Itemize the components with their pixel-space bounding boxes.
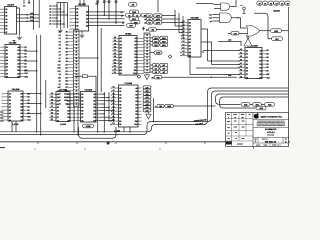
node DA3 flag	[143, 96, 151, 99]
svg-text:9: 9	[74, 119, 75, 122]
svg-text:U8 LS138: U8 LS138	[85, 89, 93, 92]
svg-text:apple computer inc.: apple computer inc.	[261, 115, 283, 118]
node diamond below U6	[137, 75, 141, 79]
decoder U3 LS139	[2, 88, 32, 122]
wire AD links	[250, 103, 265, 105]
wire J2 tap row D1	[150, 40, 153, 42]
svg-text:4: 4	[253, 147, 254, 150]
wire J2 tap row D6	[150, 71, 153, 73]
wire vertical net V3	[97, 0, 99, 132]
node flag row D5	[160, 67, 168, 71]
svg-text:1: 1	[2, 92, 3, 95]
wire top feed G1	[196, 4, 213, 5]
svg-text:U1 LS74: U1 LS74	[7, 4, 15, 7]
svg-text:RW: RW	[135, 120, 138, 123]
svg-text:3: 3	[2, 99, 3, 102]
node RA1 flag	[153, 40, 160, 44]
slanted bus label ADR BUS	[193, 118, 206, 123]
svg-text:4: 4	[70, 18, 71, 21]
wire U8 output row 1	[100, 93, 105, 95]
svg-text:Q3: Q3	[59, 73, 61, 76]
svg-text:U9 LS257: U9 LS257	[78, 3, 86, 6]
node flag row D1	[160, 40, 168, 44]
node RA7 flag	[127, 24, 136, 28]
wire U2 output row 1	[24, 50, 37, 52]
wire J1 left rail to bus	[73, 106, 75, 132]
svg-text:ENG: ENG	[242, 121, 245, 123]
svg-text:ANG: ANG	[242, 138, 245, 140]
node top pin circles	[97, 1, 99, 3]
wire net to U11 row5	[212, 64, 241, 66]
wire net to U11 row6	[196, 67, 240, 69]
wire U3 bottom stub b	[15, 121, 17, 132]
svg-text:3: 3	[74, 99, 75, 102]
wire vertical feed b	[179, 13, 183, 33]
border corner mark	[0, 147, 5, 149]
wire U8 output row 6	[100, 110, 114, 112]
node flag row C2	[154, 21, 163, 25]
svg-text:APP: APP	[227, 127, 229, 129]
node A9 flag	[129, 3, 138, 7]
AND gate G2	[220, 13, 232, 23]
wire U9 top feed a	[79, 0, 81, 6]
resistor pull-up network RP1 grid	[49, 3, 68, 29]
wire U1 output PH2	[17, 20, 40, 22]
multiplexer U9 LS257	[70, 3, 89, 31]
wire J2 tap row D5	[150, 68, 153, 70]
node DA4 flag	[143, 99, 151, 102]
wire vertical net V11	[103, 92, 105, 132]
svg-text:A9: A9	[59, 31, 61, 34]
svg-text:LS153: LS153	[60, 123, 67, 126]
wire R2 leads	[75, 75, 83, 77]
svg-text:SIZE: SIZE	[254, 138, 257, 140]
wire RAM-ADR corner	[254, 13, 268, 39]
svg-text:D5: D5	[59, 50, 61, 53]
svg-text:2: 2	[2, 96, 3, 99]
ground below U9	[80, 33, 85, 37]
svg-text:14M: 14M	[228, 39, 232, 42]
revision table dark cell	[226, 141, 232, 144]
svg-text:RW: RW	[27, 115, 30, 118]
svg-text:DWN: DWN	[227, 121, 230, 123]
wire U4 right rail joins	[73, 93, 75, 95]
node D0 flag	[147, 14, 153, 18]
svg-text:CHK: CHK	[234, 121, 237, 123]
wire U10 out 2	[201, 42, 212, 65]
connector J3 off-page at left edge	[0, 112, 4, 121]
svg-text:8: 8	[74, 116, 75, 119]
svg-text:D1: D1	[59, 37, 61, 40]
off-page arrow up row C	[142, 28, 144, 31]
wire U8 output row 2	[100, 96, 110, 98]
wire top stub a	[23, 0, 25, 4]
wire U9 output row 3	[89, 18, 125, 20]
node DA2 flag	[143, 92, 151, 95]
wire net to U11 row4	[208, 60, 241, 62]
svg-text:SCHEMATIC: SCHEMATIC	[265, 128, 277, 131]
node A7 flag	[141, 14, 148, 18]
node A6 flag	[134, 14, 141, 18]
node ROM flag	[165, 104, 174, 108]
svg-text:4: 4	[2, 102, 3, 105]
node AD0 flag	[241, 103, 250, 107]
wire RAS to border	[282, 30, 289, 32]
node junction dots U9 bus	[97, 11, 99, 13]
svg-text:D6: D6	[59, 54, 61, 57]
svg-text:PH1: PH1	[30, 16, 33, 19]
svg-text:RA2: RA2	[154, 44, 157, 47]
svg-text:NONE: NONE	[264, 145, 268, 147]
wire U8 output row 5	[100, 106, 110, 108]
wire vertical net V8	[36, 35, 38, 132]
node RA5 flag	[129, 17, 139, 21]
node bus junction dots	[97, 131, 99, 133]
apple logo	[254, 113, 259, 119]
off-page arrow below J2 upper	[144, 73, 149, 80]
node A0 flag top-right	[257, 1, 262, 5]
svg-text:1: 1	[70, 7, 71, 10]
node RA2 flag	[153, 43, 160, 47]
size and drawing number row	[258, 137, 283, 143]
wire net to U11 row1	[203, 50, 240, 52]
svg-text:5: 5	[74, 106, 75, 109]
svg-text:D0: D0	[59, 34, 61, 37]
wire U3 output row 4	[27, 103, 41, 105]
wire U8 output row 8	[100, 116, 110, 118]
wire inverter stem	[247, 46, 249, 48]
wire U1 output PH1	[17, 17, 40, 19]
svg-text:RW: RW	[134, 69, 137, 72]
wire J1 right rail to bus	[77, 106, 79, 135]
svg-text:6: 6	[85, 147, 86, 150]
svg-text:1: 1	[74, 93, 75, 96]
wire G1 output	[230, 0, 236, 7]
svg-text:A1: A1	[59, 102, 61, 105]
node DA0 flag	[143, 86, 151, 89]
wire top stub b	[28, 0, 30, 4]
node A14 flag	[157, 104, 164, 108]
wire U1 feedback loop	[17, 8, 20, 35]
svg-text:5: 5	[2, 106, 3, 109]
wire U9 top feed b	[83, 0, 85, 6]
wire bus W4	[220, 97, 289, 108]
wire U3 bottom stub a	[11, 121, 13, 132]
svg-text:MFG: MFG	[242, 127, 245, 129]
wire L-net to U11 row8	[190, 54, 240, 75]
wire bus P1 outermost	[0, 88, 289, 132]
svg-text:A0: A0	[59, 99, 61, 102]
wire U-loop under U8	[79, 127, 117, 138]
revision table grid	[226, 113, 254, 147]
wire J2 tap row D2	[150, 44, 153, 46]
wire vertical net V14	[153, 98, 155, 122]
wire G3 input2	[228, 33, 248, 35]
wire vertical net V4	[100, 28, 102, 92]
svg-text:R/W: R/W	[157, 76, 160, 79]
wire J1 tap to V3	[79, 57, 98, 59]
node DA1 flag	[143, 89, 151, 92]
svg-text:U3 LS139: U3 LS139	[12, 88, 20, 91]
svg-text:PH2: PH2	[30, 19, 33, 22]
border tick marks	[38, 142, 205, 144]
svg-text:6: 6	[2, 109, 3, 112]
wire U7 bottom stub a	[123, 127, 125, 132]
svg-text:7: 7	[35, 147, 36, 150]
node U8 select flag	[83, 124, 94, 128]
node RA0 flag	[153, 36, 160, 40]
wire U9 output row 1	[89, 11, 125, 13]
node junctions on U1 outputs	[26, 14, 28, 16]
node A2 flag top-right	[268, 1, 273, 5]
node A5 flag	[126, 14, 133, 18]
svg-text:D2: D2	[59, 40, 61, 43]
OR gate G3	[247, 26, 260, 37]
wire G2 inputs	[213, 15, 220, 22]
RAM U6 4116	[112, 33, 144, 76]
company header apple computer inc	[253, 119, 289, 121]
capacitor C2 +5V tap	[243, 7, 246, 10]
latch U2 LS259	[0, 42, 29, 79]
wire row C to U10 a	[162, 15, 175, 17]
node A3 flag top-right	[274, 1, 279, 5]
svg-text:RW: RW	[24, 69, 27, 72]
node RA4 flag	[130, 10, 139, 14]
wire U7 bottom stub b	[129, 127, 131, 132]
AND gate G1	[221, 3, 230, 10]
bus ladder J2 upper	[144, 33, 150, 73]
wire vertical net V2	[38, 0, 40, 28]
selector U10 LS251	[180, 17, 201, 58]
wire RDY stub	[268, 38, 272, 40]
wire U8 output row 3	[100, 100, 114, 102]
ground below U1	[17, 35, 22, 39]
node flag row D4	[160, 63, 168, 67]
wire ROM to right	[173, 105, 215, 107]
wire row C to U10 c	[162, 22, 183, 24]
wire vertical net V6	[108, 0, 110, 19]
node RDY flag	[272, 37, 283, 41]
svg-text:5: 5	[160, 147, 161, 150]
node D2 flag	[147, 21, 153, 25]
svg-text:7: 7	[74, 113, 75, 116]
wire U1 output PH0	[17, 14, 40, 16]
svg-text:2: 2	[74, 96, 75, 99]
wire U2 output row 4	[24, 60, 37, 62]
svg-text:SHEET 1 OF 2: SHEET 1 OF 2	[272, 145, 281, 147]
capacitor C1 symbol above U2	[13, 40, 15, 43]
svg-text:DATE: DATE	[234, 127, 237, 129]
svg-text:SCALE: SCALE	[256, 145, 260, 147]
node AD2 flag	[265, 103, 275, 107]
wire U9 output row 4	[89, 21, 125, 23]
wire 14M feed	[218, 42, 241, 47]
node flag row C1	[154, 17, 163, 21]
svg-text:U10 LS251: U10 LS251	[190, 17, 199, 20]
svg-text:5: 5	[70, 21, 71, 24]
wire bus W3	[216, 94, 289, 104]
wire vertical net V15	[157, 0, 159, 12]
svg-text:U2 LS259: U2 LS259	[9, 42, 17, 45]
svg-text:U7 LS245: U7 LS245	[125, 82, 133, 85]
svg-text:REV: REV	[285, 138, 288, 140]
svg-text:NEXT ASSY: NEXT ASSY	[237, 144, 243, 146]
wire vertical net V13	[113, 92, 115, 122]
svg-text:DA7: DA7	[146, 109, 149, 112]
node flag row D6	[160, 70, 168, 74]
node CAS flag	[231, 32, 239, 36]
svg-text:3: 3	[70, 14, 71, 17]
wire U3 output row 7	[27, 112, 41, 114]
wire vertical net V12	[108, 92, 110, 122]
connector J1 peripheral bus	[57, 30, 79, 106]
wire U2 output row 7	[24, 70, 37, 72]
node D1 flag	[147, 17, 153, 21]
svg-text:7: 7	[70, 28, 71, 31]
node DA7 flag	[143, 109, 151, 112]
svg-text:CAS0: CAS0	[156, 52, 160, 55]
node CAS0 flag	[154, 51, 162, 55]
title block divider main	[252, 113, 254, 147]
node DA5 flag	[143, 102, 151, 105]
svg-text:OR SALE OF APPARATUS WITHOUT W: OR SALE OF APPARATUS WITHOUT WRITTEN PER…	[257, 125, 286, 127]
svg-text:.XX: .XX	[235, 138, 237, 140]
wire U8 output row 4	[100, 103, 105, 105]
svg-text:2: 2	[70, 11, 71, 14]
wire vertical net V10	[45, 80, 47, 108]
svg-text:D2: D2	[149, 22, 151, 25]
node RAS flag	[271, 29, 282, 33]
node flag row D0	[160, 36, 168, 40]
wire G3 output	[260, 30, 270, 32]
sheet bottom border	[0, 141, 290, 143]
wire U9 ground stem	[81, 31, 83, 33]
node D4 flag	[153, 67, 160, 71]
shift register U11 LS166	[239, 45, 271, 80]
wire vertical net V7	[115, 0, 117, 24]
node D3 flag	[153, 63, 160, 67]
svg-text:APPLE II: APPLE II	[267, 131, 275, 134]
ground below pull-up grid	[58, 28, 63, 32]
node flag row D2	[160, 43, 168, 47]
svg-text:6: 6	[74, 109, 75, 112]
svg-text:4: 4	[74, 103, 75, 106]
wire J2 tap single	[150, 52, 154, 54]
sheet right border	[288, 7, 290, 147]
node RA6 flag	[131, 20, 140, 24]
wire VID to U10	[157, 29, 184, 31]
wire U10 out 1	[201, 29, 208, 61]
node A5 flag top-right	[285, 1, 290, 5]
wire U8 output row 9	[100, 120, 114, 122]
node flag row C0	[154, 14, 163, 18]
svg-text:DWG NO.: DWG NO.	[262, 138, 268, 140]
resistor R2	[83, 75, 88, 78]
flip-flop U1 LS74	[0, 4, 16, 35]
node A1 flag top-right	[262, 1, 267, 5]
wire U9 output row 5	[89, 25, 125, 27]
wire row C to U10 b	[162, 18, 179, 20]
svg-text:RW: RW	[65, 89, 68, 92]
svg-text:RAM-ADR: RAM-ADR	[273, 9, 280, 12]
title block outer frame	[226, 113, 289, 147]
wire G2 output	[231, 18, 246, 28]
wire U3 output row 1	[27, 93, 41, 95]
wire vertical feed c	[182, 16, 184, 39]
node VID flag	[149, 28, 157, 32]
svg-text:RW: RW	[266, 73, 269, 76]
multiplexer U4 LS153	[50, 89, 74, 123]
node AD3 flag	[256, 106, 266, 110]
wire vertical net V1	[33, 0, 35, 30]
wire U8 output row 7	[100, 113, 105, 115]
svg-text:D3: D3	[59, 44, 61, 47]
wire R/W to right	[162, 76, 237, 78]
transceiver U7 LS245	[110, 82, 141, 127]
node D5 flag	[153, 70, 160, 74]
svg-text:6: 6	[70, 24, 71, 27]
inverter gate U12 above U11	[244, 39, 252, 46]
wire U10 out 3	[201, 51, 204, 53]
wire vertical feed a	[175, 10, 183, 26]
node DA6 flag	[143, 106, 151, 109]
wire vertical net V9	[40, 35, 42, 135]
wire G1 inputs	[214, 5, 221, 9]
wire U9 output row 2	[89, 14, 125, 16]
decoder U8 LS138	[74, 89, 99, 123]
wire bus P2	[0, 91, 289, 135]
node A4 flag top-right	[279, 1, 284, 5]
wire vertical net V5	[103, 0, 105, 16]
node diamond D2	[168, 55, 171, 58]
border dark tick	[107, 141, 110, 144]
svg-text:D7: D7	[59, 57, 61, 60]
wire J2 tap row D4	[150, 64, 153, 66]
svg-text:PH0: PH0	[30, 12, 33, 15]
node AD1 flag	[253, 103, 262, 107]
off-page arrow below U7 flags	[146, 112, 151, 119]
node R/W flag	[154, 76, 162, 80]
wire J2 tap row D0	[150, 37, 153, 39]
